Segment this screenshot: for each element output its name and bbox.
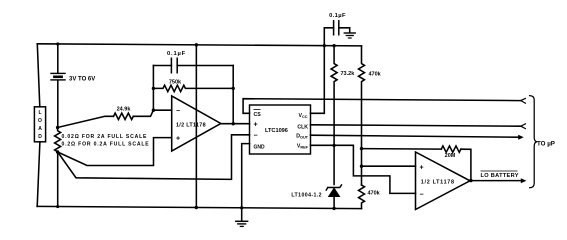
wire sense top to 24.9k: [58, 116, 114, 127]
svg-text:+: +: [176, 136, 180, 143]
node supply vertical/top rail: [195, 43, 198, 46]
wire CS line to uP: [243, 99, 521, 114]
battery B1 3V TO 6V: [57, 44, 59, 73]
svg-text:VCC: VCC: [299, 113, 308, 119]
svg-text:TO µP: TO µP: [537, 141, 555, 148]
wire Vref line: [311, 145, 416, 193]
arrowhead CLK (open, from uP): [521, 124, 526, 129]
node 73.2k/top rail: [332, 44, 335, 47]
svg-text:3V TO 6V: 3V TO 6V: [69, 77, 95, 83]
wire 20M feedback line: [362, 149, 471, 181]
node divider + input tap: [360, 165, 363, 168]
svg-text:470k: 470k: [369, 72, 382, 78]
wire GND pin to rail: [242, 144, 250, 208]
capacitor C1 0.1uF leads: [153, 65, 233, 67]
resistor R 750k: [153, 85, 233, 91]
svg-text:750k: 750k: [169, 79, 182, 85]
svg-text:1/2 LT1178: 1/2 LT1178: [421, 179, 455, 185]
svg-text:VREF: VREF: [297, 143, 309, 149]
node sense top: [56, 126, 59, 129]
svg-text:0.1µF: 0.1µF: [167, 51, 186, 57]
node battery/top rail: [56, 42, 59, 45]
node zener bottom rail: [332, 207, 335, 210]
resistor R 470k bottom (divider): [359, 185, 365, 209]
node sense bottom rail: [56, 205, 59, 208]
svg-text:O: O: [38, 118, 42, 124]
svg-text:A: A: [38, 126, 42, 132]
wire top rail V+: [37, 44, 361, 46]
resistor R 470k top (divider): [359, 46, 365, 185]
ground symbol bypass: [349, 28, 351, 33]
wire left branch vertical (load branch): [37, 44, 40, 207]
capacitor C2 0.1uF bypass leads: [324, 28, 349, 46]
node comparator output: [469, 179, 472, 182]
svg-text:0.2Ω FOR 0.2A FULL SCALE: 0.2Ω FOR 0.2A FULL SCALE: [62, 142, 150, 148]
svg-text:D: D: [38, 134, 42, 140]
svg-text:+: +: [420, 164, 424, 171]
wire divider to comparator + input: [362, 165, 416, 167]
svg-text:CS: CS: [254, 112, 262, 118]
svg-text:−: −: [254, 132, 258, 139]
wire op-amp output to ADC: [221, 123, 250, 125]
wire op-amp supply vertical through: [195, 45, 197, 208]
wire bottom ground rail: [37, 206, 361, 208]
wire +input routing: [58, 138, 172, 166]
load box LOAD: [34, 107, 45, 142]
svg-text:LO BATTERY: LO BATTERY: [481, 173, 519, 179]
svg-text:−: −: [420, 191, 424, 198]
svg-text:470k: 470k: [368, 190, 381, 196]
wire feedback right vertical: [232, 66, 234, 124]
wire CLK line to uP: [311, 125, 521, 126]
op-amp U3 1/2 LT1178 comparator triangle: [416, 152, 471, 210]
node vref zener junction: [332, 144, 335, 147]
capacitor C1 plates: [171, 58, 177, 72]
arrowhead LO BATTERY (filled): [521, 178, 527, 183]
wire Vcc pin to rail: [311, 46, 325, 114]
wire sense bottom to ground rail: [57, 152, 59, 207]
svg-text:73.2k: 73.2k: [341, 71, 356, 77]
svg-text:0.02Ω FOR 2A FULL SCALE: 0.02Ω FOR 2A FULL SCALE: [62, 134, 148, 140]
ground symbol main: [241, 208, 243, 221]
svg-text:L: L: [38, 110, 41, 116]
wire zener branch: [333, 145, 335, 207]
node adc gnd bottom rail: [240, 206, 243, 209]
node sense bottom: [56, 150, 59, 153]
svg-text:DOUT: DOUT: [296, 134, 308, 140]
svg-text:LTC1096: LTC1096: [265, 128, 288, 134]
svg-text:−: −: [176, 108, 180, 115]
svg-text:0.1µF: 0.1µF: [329, 13, 346, 19]
zener D1 LT1004-1.2: [326, 185, 341, 190]
arrowhead Dout (filled): [518, 135, 524, 140]
node feedback right 750k: [232, 87, 235, 90]
ADC U2 LTC1096 box: [250, 105, 311, 154]
wire Dout line to uP: [311, 135, 519, 137]
svg-text:1/2 LT1178: 1/2 LT1178: [176, 122, 206, 128]
svg-text:GND: GND: [254, 144, 266, 150]
op-amp U1 1/2 LT1178 triangle: [172, 96, 221, 151]
svg-text:LT1004-1.2: LT1004-1.2: [291, 193, 322, 199]
node minus input: [152, 109, 155, 112]
resistor R 73.2k branch: [331, 46, 337, 146]
wire ADC minus sense routing: [58, 135, 250, 180]
bracket to uP: [530, 96, 538, 188]
capacitor C2 plates: [334, 21, 339, 35]
resistor R 20M: [441, 146, 461, 152]
svg-text:CLK: CLK: [297, 124, 308, 130]
node divider 20M tap: [360, 147, 363, 150]
resistor R-sense 0.02/0.2 ohm: [55, 128, 61, 153]
node vcc riser/top rail: [323, 44, 326, 47]
node op-amp output: [232, 122, 235, 125]
resistor R 24.9k: [114, 113, 134, 119]
svg-text:20M: 20M: [445, 153, 456, 159]
svg-text:+: +: [254, 122, 258, 129]
wire comparator output: [470, 180, 521, 182]
node supply bottom rail: [195, 206, 198, 209]
node feedback left 750k: [152, 87, 155, 90]
wire feedback left vertical: [152, 66, 154, 111]
wire 24.9k to op-amp minus input: [133, 110, 171, 116]
arrowhead CS (open, from uP): [521, 98, 526, 103]
svg-text:24.9k: 24.9k: [117, 107, 132, 113]
